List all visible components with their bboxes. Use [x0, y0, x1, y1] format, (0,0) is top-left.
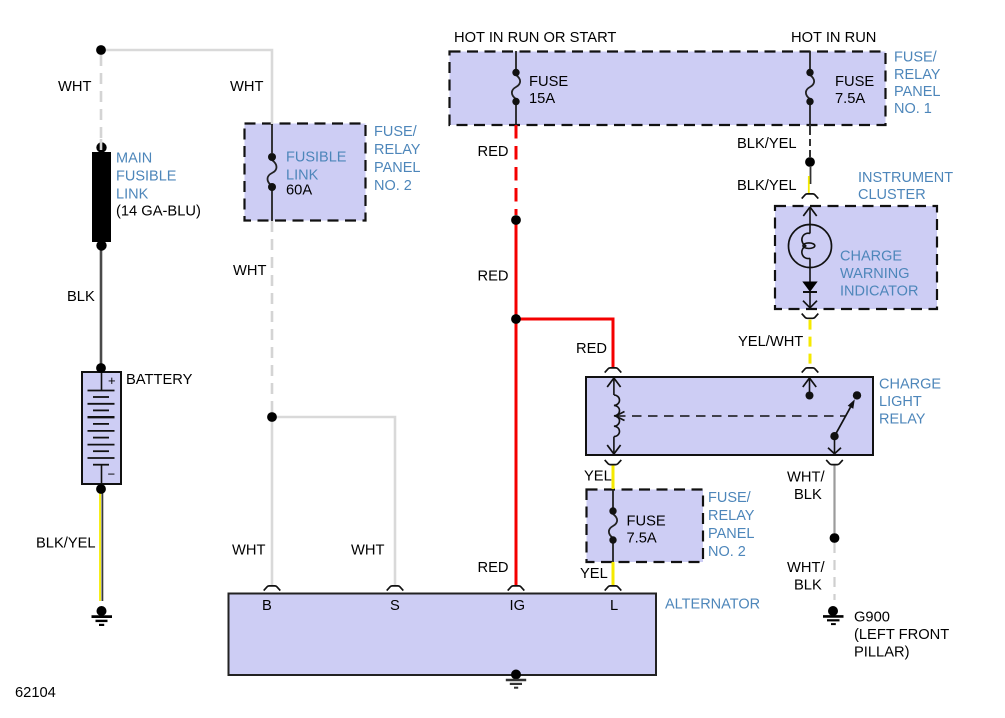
wire BLK/YEL from battery to ground G1 [100, 493, 102, 601]
connector at alternator B [264, 586, 281, 591]
fuse/relay panel no. 1 box [450, 52, 886, 126]
svg-text:S: S [390, 598, 400, 614]
svg-text:INDICATOR: INDICATOR [840, 284, 918, 300]
label FUSE 7.5A panel 2 [627, 514, 666, 547]
label RED lower [478, 560, 509, 576]
terminal label IG [510, 598, 526, 614]
svg-text:PANEL: PANEL [374, 160, 420, 176]
svg-text:15A: 15A [529, 91, 555, 107]
fuse/relay panel no. 2 box (fuse 7.5A lower) [587, 490, 704, 563]
svg-text:BLK/YEL: BLK/YEL [737, 178, 797, 194]
svg-text:FUSE/: FUSE/ [894, 50, 938, 66]
connector at relay bottom right [826, 460, 843, 465]
splice dot top left WHT [96, 45, 106, 55]
svg-text:WARNING: WARNING [840, 266, 910, 282]
svg-text:+: + [108, 373, 116, 388]
wire WHT from splice to alternator S [272, 417, 395, 585]
charge light relay box [586, 377, 873, 455]
diagram number 62104 [15, 685, 56, 701]
label YEL/WHT [738, 334, 803, 350]
wire YEL/WHT from instrument cluster to relay [809, 320, 812, 368]
wire WHT horizontal from splice to fuse panel 2 [101, 50, 272, 124]
wire WHT/BLK from relay to splice [833, 465, 835, 533]
instrument cluster box [775, 206, 937, 309]
svg-text:FUSIBLE: FUSIBLE [286, 150, 347, 166]
charge light relay internals: switch [803, 378, 861, 454]
instrument cluster internals: charge warning indicator [789, 207, 832, 308]
fusible link 60A in panel no. 2 [268, 124, 277, 221]
ground G1 below battery [92, 606, 113, 625]
label BLK/YEL battery ground [36, 536, 96, 552]
svg-text:LINK: LINK [116, 187, 149, 203]
label HOT IN RUN OR START [454, 30, 616, 46]
label RED upper [478, 144, 509, 160]
label RED middle [478, 269, 509, 285]
wire RED branch to charge light relay [516, 319, 613, 367]
splice dot BLK/YEL [805, 157, 815, 167]
svg-text:CHARGE: CHARGE [879, 377, 941, 393]
svg-text:BLK: BLK [794, 487, 822, 503]
svg-text:7.5A: 7.5A [835, 91, 865, 107]
connector at instrument cluster top [802, 194, 819, 199]
label WHT above alternator B [232, 543, 265, 559]
label BATTERY [126, 372, 193, 388]
svg-text:NO. 2: NO. 2 [374, 178, 412, 194]
wire BLK from main fusible link to battery [100, 249, 103, 364]
wire WHT/BLK dashed from splice to ground G900 [833, 543, 835, 600]
main fusible link component [92, 139, 111, 251]
connector at relay top left [605, 368, 622, 373]
svg-text:60A: 60A [286, 183, 312, 199]
svg-text:WHT: WHT [232, 543, 265, 559]
svg-text:LIGHT: LIGHT [879, 394, 922, 410]
svg-text:62104: 62104 [15, 685, 56, 701]
charge light relay internals: linkage dashed line [616, 412, 846, 421]
svg-text:WHT: WHT [58, 79, 91, 95]
label fuse/relay panel no. 2 lower [708, 490, 755, 560]
svg-text:(LEFT FRONT: (LEFT FRONT [854, 627, 949, 643]
svg-text:HOT IN RUN OR START: HOT IN RUN OR START [454, 30, 616, 46]
svg-text:FUSE/: FUSE/ [374, 124, 418, 140]
svg-text:RED: RED [478, 269, 509, 285]
battery internals [88, 373, 116, 483]
svg-text:NO. 2: NO. 2 [708, 544, 746, 560]
svg-text:FUSIBLE: FUSIBLE [116, 169, 177, 185]
svg-text:NO. 1: NO. 1 [894, 101, 932, 117]
label fuse/relay panel no. 1 [894, 50, 941, 118]
label CHARGE LIGHT RELAY [879, 377, 941, 428]
svg-text:YEL/WHT: YEL/WHT [738, 334, 803, 350]
svg-text:−: − [108, 467, 116, 482]
svg-text:BLK: BLK [794, 578, 822, 594]
wire WHT from splice to alternator B [271, 417, 274, 585]
label WHT/BLK upper [787, 470, 825, 504]
label main fusible link [116, 151, 201, 220]
svg-text:BLK/YEL: BLK/YEL [737, 136, 797, 152]
connector at instrument cluster bottom [802, 314, 819, 319]
splice dot WHT column 2 [267, 412, 277, 422]
svg-text:HOT IN RUN: HOT IN RUN [791, 30, 876, 46]
splice dot battery positive [96, 363, 106, 373]
label WHT top left [58, 79, 91, 95]
connector at alternator S [387, 586, 404, 591]
fuse F 7.5A in panel no. 2 [609, 489, 617, 562]
svg-text:WHT/: WHT/ [787, 470, 825, 486]
alternator box [229, 594, 657, 676]
label G900 LEFT FRONT PILLAR [854, 610, 949, 661]
ground G900 left front pillar [823, 606, 844, 624]
svg-text:IG: IG [510, 598, 526, 614]
wire YEL from fuse panel 2 to alternator L [612, 562, 615, 585]
svg-text:BATTERY: BATTERY [126, 372, 193, 388]
label WHT above alternator S [351, 543, 384, 559]
connector at alternator IG [508, 586, 525, 591]
svg-text:WHT: WHT [233, 263, 266, 279]
svg-text:INSTRUMENT: INSTRUMENT [858, 170, 953, 186]
label RED branch [576, 341, 607, 357]
fuse/relay panel no. 2 box (fusible link 60A) [245, 124, 366, 221]
svg-text:BLK/YEL: BLK/YEL [36, 536, 96, 552]
splice dot battery negative [96, 484, 106, 494]
svg-text:L: L [610, 598, 618, 614]
svg-text:RED: RED [478, 560, 509, 576]
svg-text:YEL: YEL [580, 566, 608, 582]
wire WHT dashed from splice down to main fusible link [100, 55, 103, 144]
label CHARGE WARNING INDICATOR [840, 249, 918, 300]
charge light relay internals: coil [607, 378, 620, 454]
label YEL lower [580, 566, 608, 582]
svg-text:YEL: YEL [584, 469, 612, 485]
svg-text:WHT: WHT [230, 79, 263, 95]
label YEL upper [584, 469, 612, 485]
svg-text:RED: RED [478, 144, 509, 160]
svg-text:RELAY: RELAY [879, 412, 926, 428]
svg-text:WHT/: WHT/ [787, 560, 825, 576]
label INSTRUMENT CLUSTER [858, 170, 953, 203]
svg-text:CLUSTER: CLUSTER [858, 187, 926, 203]
wire RED dashed below fuse 15A [515, 125, 518, 215]
fuse F 7.5A in panel no. 1 [806, 51, 814, 125]
svg-text:FUSE/: FUSE/ [708, 490, 752, 506]
label BLK/YEL upper [737, 136, 797, 152]
svg-text:RED: RED [576, 341, 607, 357]
svg-text:7.5A: 7.5A [627, 531, 657, 547]
svg-text:(14 GA-BLU): (14 GA-BLU) [116, 204, 201, 220]
wire WHT dashed from fuse panel 2 down to splice [271, 221, 274, 412]
wire BLK/YEL below fuse 7.5A panel 1 [809, 125, 811, 157]
wire RED from splice to alternator IG [515, 217, 518, 585]
svg-text:RELAY: RELAY [894, 67, 941, 83]
wire BLK/YEL from splice to instrument cluster [809, 167, 811, 194]
label BLK [67, 289, 95, 305]
terminal label S [390, 598, 400, 614]
svg-text:PANEL: PANEL [894, 84, 940, 100]
svg-text:CHARGE: CHARGE [840, 249, 902, 265]
svg-text:FUSE: FUSE [529, 74, 568, 90]
svg-text:BLK: BLK [67, 289, 95, 305]
label fusible link 60A [286, 150, 347, 199]
label ALTERNATOR [665, 597, 760, 613]
svg-text:FUSE: FUSE [627, 514, 666, 530]
label FUSE 7.5A panel 1 [835, 74, 874, 107]
label BLK/YEL lower [737, 178, 797, 194]
battery box [82, 372, 121, 484]
svg-text:B: B [262, 598, 272, 614]
label fuse/relay panel no. 2 upper [374, 124, 421, 194]
label WHT mid column 2 [233, 263, 266, 279]
ground at alternator case [506, 670, 526, 688]
svg-text:MAIN: MAIN [116, 151, 152, 167]
splice dot RED branch [511, 314, 521, 324]
connector at alternator L [605, 586, 622, 591]
svg-text:RELAY: RELAY [374, 142, 421, 158]
label WHT top column 2 [230, 79, 263, 95]
svg-text:RELAY: RELAY [708, 508, 755, 524]
svg-text:FUSE: FUSE [835, 74, 874, 90]
fuse F 15A in panel no. 1 [512, 51, 520, 125]
label WHT/BLK lower [787, 560, 825, 594]
svg-text:LINK: LINK [286, 168, 319, 184]
svg-text:ALTERNATOR: ALTERNATOR [665, 597, 760, 613]
svg-text:PANEL: PANEL [708, 526, 754, 542]
terminal label B [262, 598, 272, 614]
splice dot WHT/BLK [830, 533, 840, 543]
svg-text:WHT: WHT [351, 543, 384, 559]
terminal label L [610, 598, 618, 614]
wire YEL from relay to fuse panel 2 [612, 465, 615, 489]
splice dot RED upper [511, 215, 521, 225]
connector at relay bottom left [605, 460, 622, 465]
svg-text:PILLAR): PILLAR) [854, 645, 910, 661]
svg-text:G900: G900 [854, 610, 890, 626]
label HOT IN RUN [791, 30, 876, 46]
connector at relay top right [802, 368, 819, 373]
label FUSE 15A [529, 74, 568, 107]
